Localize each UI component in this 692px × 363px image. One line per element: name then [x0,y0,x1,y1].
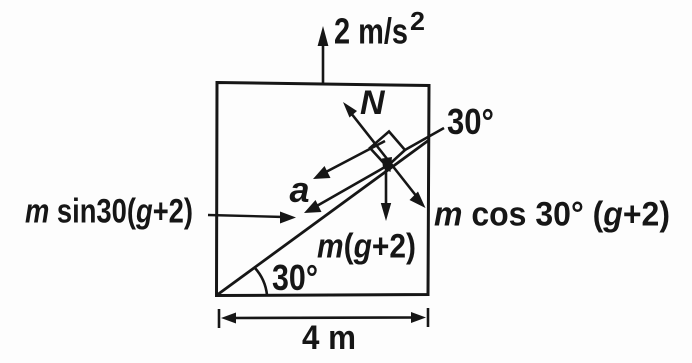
svg-text:m(g+2): m(g+2) [317,228,416,266]
weight arrow m(g+2) [381,160,391,221]
svg-text:30°: 30° [447,101,494,142]
pointer arrow from m sin30 label [208,212,296,224]
dimension line 4 m [219,308,428,328]
svg-text:4 m: 4 m [302,319,356,357]
svg-text:N: N [360,84,386,122]
box (elevator) outline [217,83,430,296]
normal force N and m cos component line [343,102,426,208]
incline line [217,140,429,295]
leader line from 30 deg label to block [404,128,444,151]
acceleration arrow 2 m/s^2 [318,26,329,83]
svg-text:30°: 30° [272,257,318,298]
svg-text:2: 2 [410,6,425,36]
svg-text:m sin30(g+2): m sin30(g+2) [25,193,193,231]
m sin30(g+2) component arrow along incline [304,163,392,213]
junction blob at block bottom corner [382,157,392,172]
block on incline [370,132,405,167]
svg-text:2 m/s: 2 m/s [334,11,408,52]
30 deg angle arc at incline base [255,268,267,295]
svg-text:m cos 30° (g+2): m cos 30° (g+2) [434,196,670,234]
svg-text:a: a [290,169,310,210]
acceleration a arrow along incline [313,141,385,179]
